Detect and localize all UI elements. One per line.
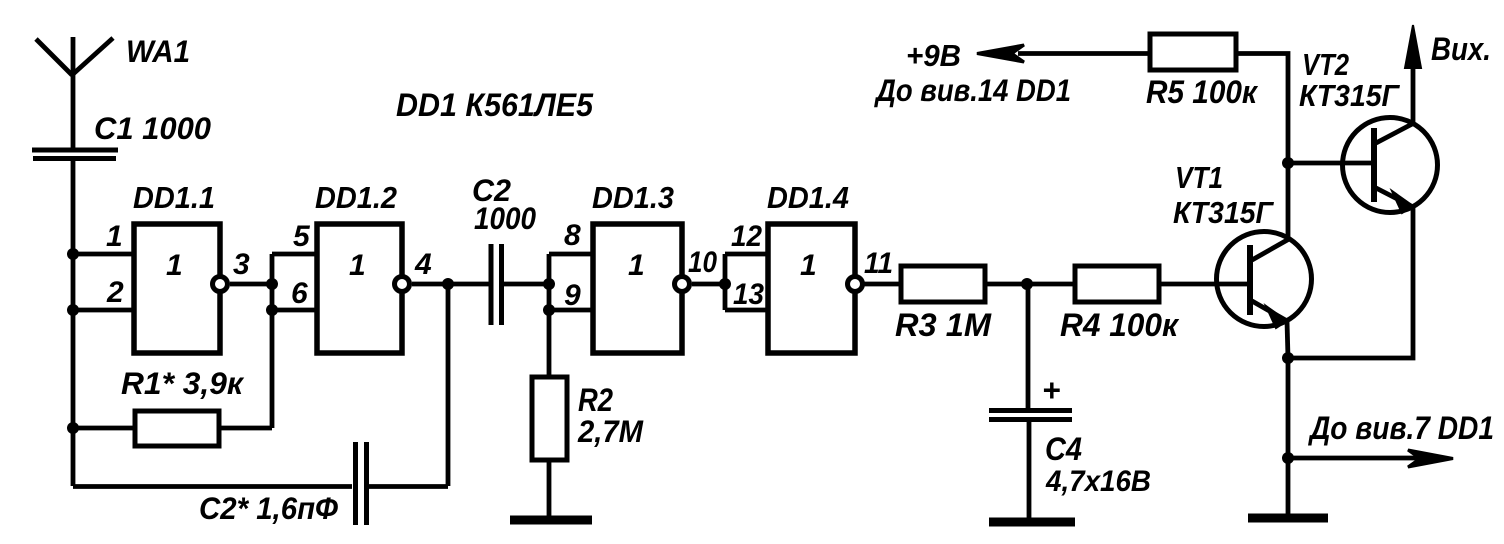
antenna WA1 bbox=[36, 37, 113, 148]
junction at output tap bbox=[1282, 452, 1294, 464]
wire C4 to ground bbox=[1027, 421, 1032, 519]
svg-text:1: 1 bbox=[106, 220, 123, 253]
svg-text:КТ315Г: КТ315Г bbox=[1299, 78, 1401, 113]
svg-text:2,7М: 2,7М bbox=[577, 413, 644, 449]
svg-text:5: 5 bbox=[293, 220, 311, 253]
junction node 3 bbox=[266, 278, 278, 290]
wire VT2 emitter down bbox=[1288, 208, 1413, 358]
svg-text:+: + bbox=[1042, 372, 1060, 408]
gate DD1.3 bbox=[593, 224, 690, 353]
wire DD1.4 out to R3 bbox=[864, 282, 901, 287]
gate DD1.2 bbox=[317, 224, 410, 353]
capacitor C2 bbox=[491, 244, 502, 325]
resistor R5 bbox=[1150, 34, 1236, 70]
svg-text:DD1.3: DD1.3 bbox=[592, 180, 674, 215]
wire R1 to DD1.2 input column bbox=[219, 426, 272, 431]
svg-text:10: 10 bbox=[688, 246, 717, 279]
wire node 4 down to feedback rail bbox=[446, 284, 451, 486]
junction at VT2 base bbox=[1282, 157, 1294, 169]
svg-text:1: 1 bbox=[349, 249, 366, 282]
wire emitter junction down to ground bbox=[1286, 358, 1291, 516]
junction at C4 tap bbox=[1021, 278, 1033, 290]
wire C1 to input column bbox=[71, 161, 76, 486]
junction at R1 left bbox=[67, 422, 79, 434]
junction at emitters bbox=[1282, 352, 1294, 364]
svg-text:1: 1 bbox=[628, 249, 645, 282]
wire input column DD1.4 bbox=[723, 254, 728, 310]
svg-text:12: 12 bbox=[731, 220, 762, 253]
wire pin 9 bbox=[549, 308, 593, 313]
wire DD1.3 out to node bbox=[692, 282, 725, 287]
junction at pin 6 bbox=[266, 304, 278, 316]
svg-text:11: 11 bbox=[864, 247, 893, 280]
svg-text:До вив.14 DD1: До вив.14 DD1 bbox=[873, 72, 1071, 108]
wire node column DD1.2 inputs bbox=[270, 254, 275, 428]
svg-text:+9В: +9В bbox=[906, 38, 961, 73]
wire pin 12 bbox=[725, 252, 768, 257]
transistor VT2 bbox=[1343, 118, 1438, 214]
junction at antenna / pin 1 bbox=[67, 248, 79, 260]
wire feedback rail right bbox=[369, 484, 448, 489]
resistor R3 bbox=[901, 266, 985, 302]
svg-text:R1* 3,9к: R1* 3,9к bbox=[121, 365, 245, 401]
ground R2 bbox=[510, 516, 592, 525]
wire VT2 collector to output arrow bbox=[1411, 62, 1416, 124]
wire DD1.1 out to node bbox=[230, 282, 272, 287]
junction node 4 bbox=[442, 278, 454, 290]
svg-text:DD1.4: DD1.4 bbox=[767, 180, 849, 215]
svg-text:C2* 1,6пФ: C2* 1,6пФ bbox=[199, 490, 338, 526]
svg-text:Вих.: Вих. bbox=[1431, 31, 1491, 67]
svg-text:13: 13 bbox=[733, 278, 764, 311]
svg-text:9: 9 bbox=[564, 279, 581, 312]
arrow Вих. bbox=[1405, 25, 1421, 68]
wire pin 6 bbox=[272, 308, 317, 313]
svg-text:4: 4 bbox=[414, 248, 432, 281]
wire left node to R1 bbox=[73, 426, 135, 431]
ground C4 bbox=[989, 518, 1075, 527]
wire feedback rail left bbox=[73, 484, 352, 489]
svg-text:1: 1 bbox=[800, 249, 817, 282]
svg-text:R4 100к: R4 100к bbox=[1060, 307, 1180, 343]
svg-text:R5 100к: R5 100к bbox=[1146, 74, 1259, 110]
wire R5 left to arrow bbox=[1018, 51, 1150, 56]
svg-text:8: 8 bbox=[564, 219, 581, 252]
svg-text:4,7x16В: 4,7x16В bbox=[1045, 465, 1151, 498]
wire pin 13 bbox=[725, 308, 768, 313]
svg-text:DD1.2: DD1.2 bbox=[315, 180, 397, 215]
svg-text:3: 3 bbox=[233, 248, 250, 281]
gate DD1.4 bbox=[768, 224, 863, 353]
wire R5 right to corner bbox=[1236, 54, 1288, 241]
svg-text:R3 1М: R3 1М bbox=[895, 307, 992, 343]
capacitor C1 bbox=[32, 150, 118, 159]
wire R2 to ground bbox=[547, 460, 552, 517]
svg-text:6: 6 bbox=[291, 277, 308, 310]
ground VT1 emitter bbox=[1248, 514, 1328, 523]
wire R4 to VT1 base bbox=[1159, 282, 1250, 287]
capacitor C4 bbox=[989, 411, 1072, 420]
junction node 10 bbox=[719, 278, 731, 290]
svg-text:WA1: WA1 bbox=[126, 33, 190, 69]
resistor R2 bbox=[532, 377, 567, 460]
gate DD1.1 bbox=[134, 224, 228, 353]
svg-text:1000: 1000 bbox=[474, 200, 536, 236]
wire R3 to R4 bbox=[985, 282, 1075, 287]
resistor R1 bbox=[135, 411, 219, 446]
svg-text:C4: C4 bbox=[1045, 431, 1082, 467]
svg-text:DD1 К561ЛЕ5: DD1 К561ЛЕ5 bbox=[396, 87, 594, 123]
svg-text:VT1: VT1 bbox=[1175, 160, 1223, 195]
wire pin 2 bbox=[73, 308, 134, 313]
svg-text:VT2: VT2 bbox=[1302, 47, 1349, 82]
svg-text:1: 1 bbox=[166, 249, 183, 282]
junction at pin 9 / R2 bbox=[543, 304, 555, 316]
arrow До вив.7 DD1 bbox=[1288, 456, 1420, 461]
wire pin 8 bbox=[549, 252, 593, 257]
wire input column DD1.3 bbox=[547, 254, 552, 377]
wire C4 tap bbox=[1026, 284, 1031, 411]
svg-text:C1 1000: C1 1000 bbox=[94, 110, 211, 146]
svg-text:КТ315Г: КТ315Г bbox=[1173, 195, 1275, 230]
resistor R4 bbox=[1075, 266, 1159, 302]
svg-text:DD1.1: DD1.1 bbox=[133, 180, 215, 215]
wire DD1.2 out to C2 bbox=[412, 282, 491, 287]
svg-text:До вив.7 DD1: До вив.7 DD1 bbox=[1307, 410, 1494, 446]
wire pin 1 bbox=[73, 252, 134, 257]
wire VT1 emitter to junction bbox=[1287, 321, 1288, 358]
wire VT2 base bbox=[1288, 161, 1374, 166]
capacitor C2* bbox=[356, 442, 367, 525]
transistor VT1 bbox=[1217, 232, 1312, 329]
arrow +9В bbox=[977, 45, 1024, 62]
junction after C2 bbox=[543, 278, 555, 290]
junction at pin 2 bbox=[67, 304, 79, 316]
wire pin 5 bbox=[272, 252, 317, 257]
wire C2 to DD1.3 inputs bbox=[504, 282, 549, 287]
svg-text:2: 2 bbox=[106, 276, 124, 309]
